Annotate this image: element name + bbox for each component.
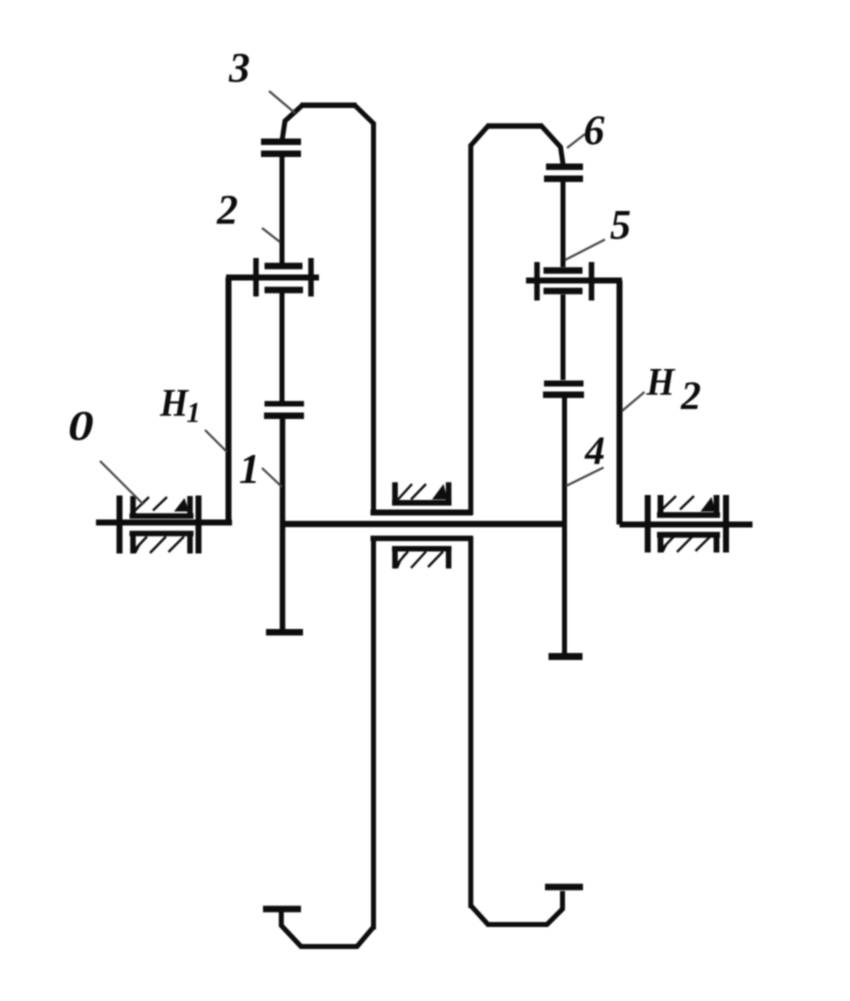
svg-text:3: 3 — [228, 46, 250, 92]
ring gear 3 top rim — [301, 102, 357, 108]
central bearing bottom channel — [392, 549, 452, 569]
right bearing housing top hatch — [662, 496, 694, 510]
planet 5 shaft lower segment — [561, 295, 566, 381]
svg-text:5: 5 — [610, 203, 631, 249]
planet 2 tooth dash (mesh with ring 3) — [261, 150, 301, 157]
planet gear 2 bottom face bar — [265, 287, 304, 294]
carrier H2 horizontal link — [526, 278, 622, 284]
gear 5 lower tooth dash (mesh 4-5) — [544, 381, 584, 387]
gear 4 body vertical — [562, 398, 567, 656]
leader label 3 — [269, 91, 295, 113]
carrier H1 horizontal link — [226, 275, 319, 281]
right bearing housing bottom channel — [657, 535, 720, 553]
leader label 4 — [566, 468, 604, 487]
ring gear 6 tooth dash — [546, 163, 583, 170]
ring gear 6 rim left vertical upper — [468, 144, 473, 515]
planet 2 shaft upper segment — [280, 156, 285, 263]
carrier H2 vertical arm — [617, 281, 623, 525]
left bearing housing bottom hatch — [132, 537, 185, 554]
leader label 1 — [262, 468, 282, 487]
gear 4 upper tooth dash (mesh 4-5) — [543, 391, 584, 398]
right bearing housing bottom hatch — [659, 536, 711, 552]
svg-text:4: 4 — [584, 428, 605, 473]
right bearing outer bar right — [723, 495, 729, 553]
leader label 6 — [567, 134, 585, 148]
planet gear 2 bearing tick right — [308, 258, 314, 297]
carrier H1 vertical arm — [226, 278, 232, 523]
left bearing housing bottom channel — [130, 534, 194, 554]
left bearing outer bar right — [196, 496, 202, 554]
left bearing housing top channel — [130, 496, 194, 516]
input shaft 0 — [96, 520, 232, 526]
planet gear 2 bearing tick left — [253, 258, 259, 297]
right bearing outer bar left — [645, 495, 651, 553]
leader label 0 — [100, 461, 144, 505]
leader label 2 — [262, 228, 280, 242]
ring gear 6 rim left vertical lower — [468, 536, 473, 908]
central bearing bottom hatch — [394, 552, 444, 569]
ring gear 6 left bevel — [471, 126, 488, 146]
planet gear 5 bottom face bar — [544, 288, 583, 295]
ring gear 6 bottom hook — [471, 891, 563, 925]
planet 5 tooth dash (mesh with ring 6) — [544, 175, 583, 182]
svg-text:6: 6 — [584, 109, 605, 155]
planet gear 5 bearing tick right — [589, 262, 595, 301]
leader label H1 — [205, 430, 227, 452]
left bearing housing top hatch — [135, 497, 167, 511]
right bearing housing top channel — [657, 495, 720, 515]
leader label 5 — [565, 240, 605, 261]
ring gear 6 right bevel — [542, 126, 564, 164]
ring gear 3 rim right vertical lower — [371, 536, 376, 930]
left bearing outer bar left — [117, 496, 123, 554]
svg-text:1: 1 — [239, 447, 260, 493]
ring gear 3 tooth dash — [261, 138, 301, 145]
ring gear 6 top rim — [487, 123, 544, 129]
ring gear 3 rim right vertical upper — [371, 122, 376, 515]
central bearing top hatch — [398, 484, 426, 500]
central shaft (gears 1 and 4) — [282, 521, 564, 527]
gear 1 upper tooth dash (mesh 1-2) — [264, 412, 304, 419]
svg-text:0: 0 — [68, 403, 94, 450]
planet 5 shaft upper segment — [561, 182, 566, 267]
gear 2 lower tooth dash (mesh 1-2) — [265, 401, 305, 407]
central bearing top channel — [392, 482, 452, 503]
planet 2 shaft lower segment — [280, 293, 285, 401]
planet gear 2 top face bar — [265, 263, 303, 270]
ring gear 3 bottom tooth tick — [263, 906, 301, 913]
leader label H2 — [622, 392, 645, 411]
svg-text:1: 1 — [187, 398, 201, 429]
svg-text:H: H — [646, 361, 676, 404]
planet gear 5 bearing tick left — [534, 262, 540, 301]
output shaft (carrier H2) — [620, 522, 753, 528]
ring gear 3 bottom hook — [281, 911, 373, 947]
ring gear 3 right bevel — [355, 106, 374, 124]
gear 1 end cap — [266, 629, 303, 636]
svg-text:2: 2 — [216, 188, 238, 234]
planet gear 5 top face bar — [544, 267, 583, 274]
leader lines — [100, 91, 645, 505]
svg-text:H: H — [159, 382, 189, 425]
gear 4 end cap — [549, 653, 583, 660]
svg-text:2: 2 — [680, 373, 701, 418]
central frame bottom cap — [371, 536, 473, 542]
ring gear 3 left bevel — [282, 106, 302, 140]
central frame top cap — [371, 510, 473, 516]
ring gear 6 bottom tooth tick — [545, 884, 583, 891]
gear 1 body vertical — [280, 419, 286, 632]
